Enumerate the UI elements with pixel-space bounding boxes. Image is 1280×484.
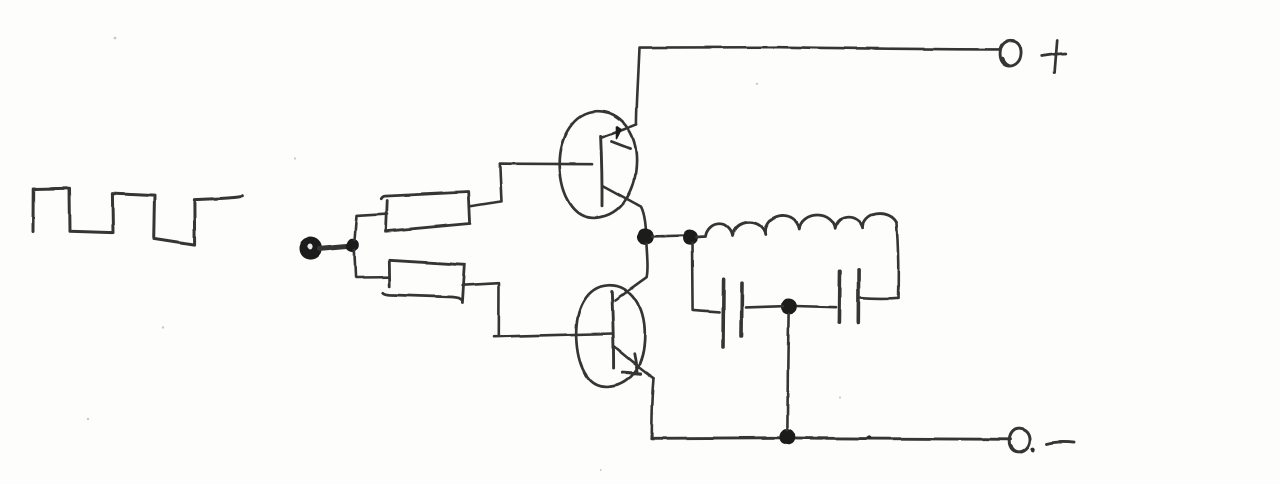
node C (capacitor junction) (782, 300, 795, 313)
wire V- rail bottom (652, 438, 1010, 440)
wire node A to node B (652, 234, 685, 237)
output terminal negative circle (1009, 429, 1030, 453)
wire L1 right side down (896, 222, 898, 298)
wire V+ rail vertical (636, 48, 639, 125)
wire junction to R2 (354, 250, 389, 278)
input terminal (301, 239, 320, 258)
transistor Q1 emitter arrow (612, 127, 631, 149)
transistor Q2 emitter lead (615, 347, 655, 378)
wire L1 to C2 right plate (861, 296, 898, 299)
transistor Q2 base bar (612, 292, 614, 369)
wire node A to Q2 collector (615, 244, 648, 301)
wire Q2 emitter to V- rail (652, 378, 654, 438)
wire C1 to node B (692, 244, 720, 313)
wire V+ rail top (640, 47, 1000, 49)
transistor Q2 emitter arrow (623, 354, 641, 374)
wire C2 to node C (795, 306, 836, 307)
label minus dot (1031, 448, 1035, 453)
transistor Q1 base bar (601, 136, 602, 206)
resistor R2 bottom edge (383, 293, 462, 300)
inductor L1 (696, 213, 896, 237)
node A (collector junction) (639, 230, 653, 243)
square wave input signal (33, 188, 242, 244)
wire R2 to Q2 base (463, 283, 613, 337)
wire input lead (320, 246, 347, 248)
wire junction to R1 (355, 214, 388, 240)
label plus sign (1042, 41, 1066, 73)
wire node C to node D (787, 314, 788, 431)
wire V- rail ink speck (867, 436, 872, 440)
output terminal positive circle (1000, 40, 1021, 65)
node B (tank junction) (684, 231, 696, 244)
transistor Q2 body (576, 285, 645, 387)
resistor R1 (381, 192, 469, 231)
resistor R2 (389, 260, 465, 302)
node input junction (348, 239, 358, 250)
wire node C to C1 right plate (746, 306, 783, 307)
transistor Q1 emitter lead (602, 124, 637, 137)
capacitor C1 (723, 280, 742, 347)
label minus sign (1047, 442, 1074, 444)
transistor Q1 body (559, 111, 636, 218)
node D (bottom rail junction) (781, 430, 794, 443)
transistor Q1 collector lead (602, 185, 646, 231)
wire R1 to Q1 base (469, 164, 592, 207)
capacitor C2 (839, 270, 858, 322)
